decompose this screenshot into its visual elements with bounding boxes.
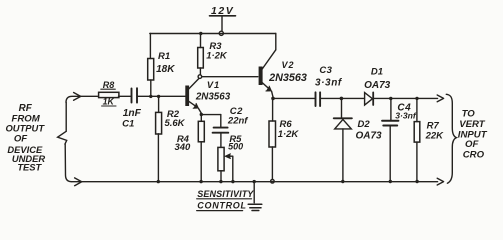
resistor R7 [414, 122, 420, 143]
wire R4 top lead [200, 115, 202, 122]
svg-text:CONTROL: CONTROL [197, 200, 246, 210]
wire ground rail [72, 181, 438, 183]
node R7 top dot [415, 97, 418, 100]
resistor R6 [269, 121, 276, 147]
node R7 ground dot [415, 180, 418, 183]
node R5 ground dot [219, 180, 222, 183]
svg-text:1·2K: 1·2K [278, 129, 300, 140]
svg-text:1·2K: 1·2K [206, 51, 228, 62]
wire R6 top lead [272, 98, 274, 121]
node R1 base junction [149, 95, 152, 98]
svg-text:OA73: OA73 [355, 130, 382, 141]
node V2 emitter junction [271, 97, 275, 101]
node R2 base junction [157, 95, 160, 98]
node R6 bottom circle [271, 180, 275, 184]
wire output rail [273, 97, 438, 99]
resistor R8 [99, 92, 119, 97]
label 1K underline [102, 105, 116, 107]
svg-text:OA73: OA73 [364, 80, 391, 91]
svg-text:3·3nf: 3·3nf [315, 78, 343, 89]
node R2 ground dot [157, 180, 160, 183]
svg-text:2N3563: 2N3563 [268, 72, 307, 84]
wire input top from corner to R8 [66, 96, 98, 102]
svg-text:CRO: CRO [463, 149, 485, 160]
resistor R4 [198, 121, 204, 142]
svg-text:OF: OF [14, 134, 28, 145]
arrow output rail right [437, 95, 443, 102]
capacitor C3 [316, 92, 321, 106]
svg-text:500: 500 [228, 142, 243, 152]
svg-text:V2: V2 [281, 60, 294, 70]
label CONTROL underline [197, 210, 243, 212]
svg-text:18K: 18K [156, 64, 175, 75]
svg-text:D1: D1 [371, 67, 383, 78]
capacitor C1 [132, 88, 138, 102]
svg-text:OF: OF [465, 139, 479, 150]
svg-text:R1: R1 [158, 51, 170, 62]
label TO VERT INPUT OF CRO [458, 108, 488, 160]
resistor R3 [198, 48, 204, 69]
node D2 ground dot [341, 180, 344, 183]
svg-text:SENSITIVITY: SENSITIVITY [197, 189, 254, 199]
brace output right [446, 94, 456, 183]
wire R6 bottom lead [271, 147, 273, 180]
arrow input bottom [75, 178, 82, 186]
wire left input vertical [65, 103, 71, 182]
wire input break zigzag [58, 131, 67, 144]
resistor R1 [148, 59, 154, 81]
svg-text:R8: R8 [103, 80, 115, 90]
svg-text:3·3nf: 3·3nf [395, 111, 417, 121]
wire R8 to C1 [119, 95, 131, 97]
wire C4 bottom lead [389, 126, 391, 181]
wire R2 top lead [158, 96, 160, 112]
wire C4 top lead [390, 99, 392, 120]
arrow R5 wiper head [225, 154, 230, 159]
node 12V terminal circle [219, 31, 223, 35]
svg-text:VERT: VERT [459, 119, 486, 130]
wire C3 to D1 [321, 97, 364, 99]
wire 12V stem [221, 17, 223, 31]
wire R5 wiper [227, 156, 233, 181]
svg-text:5.6K: 5.6K [164, 118, 185, 129]
node V1 collector circle [198, 75, 202, 79]
wire R3 top lead [200, 34, 202, 48]
node ground stub dot [253, 180, 256, 183]
label RF FROM OUTPUT OF DEVICE UNDER TEST [6, 103, 46, 172]
wire C1 to V1 base [138, 95, 185, 97]
node C4 ground dot [389, 180, 392, 183]
12V supply bar [210, 15, 236, 17]
transistor V2 [259, 50, 276, 97]
node D2 top junction [340, 97, 344, 101]
svg-text:D2: D2 [358, 119, 371, 130]
svg-text:C3: C3 [319, 65, 332, 76]
wire D2 top lead [341, 98, 343, 117]
arrow input top [74, 93, 81, 101]
wire C2 top lead [220, 115, 222, 127]
wire top +12V rail [150, 33, 276, 35]
wire R7 bottom lead [416, 142, 418, 181]
arrow output rail bottom right [437, 178, 443, 185]
svg-text:22nf: 22nf [227, 116, 248, 127]
wire R5 bottom lead [220, 171, 222, 182]
svg-text:22K: 22K [425, 131, 445, 142]
wire R1 top lead [149, 34, 151, 59]
capacitor C4 [382, 121, 398, 126]
label R8 underline [101, 88, 116, 90]
svg-text:TO: TO [462, 108, 476, 119]
diode D2 [334, 118, 352, 129]
node V1 emitter junction [200, 113, 203, 116]
node C4 top dot [389, 97, 392, 100]
label SENSITIVITY underline [197, 198, 252, 200]
wire V2 collector to rail [275, 34, 277, 50]
wire R7 top lead [416, 98, 418, 121]
svg-text:V1: V1 [207, 80, 220, 90]
node wiper ground dot [231, 180, 234, 183]
ground [248, 182, 262, 211]
wire V1 collector to V2 base [202, 76, 258, 78]
node R3 top dot [199, 32, 202, 35]
svg-text:340: 340 [174, 142, 191, 153]
resistor R2 [156, 112, 162, 134]
wire V1 emitter to C2 [201, 114, 221, 116]
diode D1 [365, 92, 374, 105]
wire R2 bottom lead [157, 134, 159, 182]
capacitor C2 [213, 128, 229, 133]
wire R1 bottom lead [150, 80, 152, 96]
svg-text:1K: 1K [103, 97, 115, 107]
transistor V1 [185, 78, 201, 113]
wire C2 bottom lead [220, 134, 222, 148]
node R4 ground dot [199, 180, 202, 183]
wire C3 left lead [273, 97, 314, 99]
svg-text:RF: RF [19, 103, 33, 114]
svg-text:1nF: 1nF [123, 108, 142, 119]
svg-text:2N3563: 2N3563 [195, 91, 231, 102]
wire D2 bottom lead [342, 129, 344, 182]
wire R3 bottom lead [199, 68, 201, 75]
svg-text:TEST: TEST [17, 161, 42, 172]
svg-text:C1: C1 [122, 119, 134, 130]
wire R4 bottom lead [200, 142, 202, 182]
potentiometer R5 [218, 147, 224, 170]
svg-text:OUTPUT: OUTPUT [6, 122, 46, 133]
